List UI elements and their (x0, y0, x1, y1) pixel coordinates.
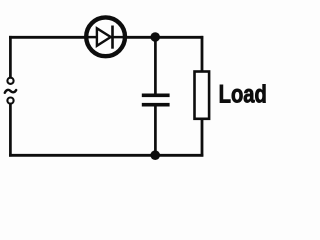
svg-text:Load: Load (219, 79, 267, 108)
node junction bottom (150, 150, 160, 160)
wire left upper vertical (9, 36, 12, 78)
AC source terminal lower (7, 98, 13, 104)
AC source terminal upper (7, 78, 13, 84)
node junction top (150, 32, 160, 42)
diode D1 internal wire (86, 36, 125, 39)
wire right lower vertical (201, 119, 204, 157)
capacitor C bottom plate (142, 103, 170, 107)
wire middle vertical below capacitor (154, 105, 157, 156)
load resistor rectangle (195, 72, 210, 119)
AC source tilde (5, 90, 16, 93)
diode D1 circle (86, 17, 125, 56)
wire right upper vertical (201, 36, 204, 72)
diode D1 triangle (97, 28, 111, 46)
wire top horizontal (9, 36, 203, 39)
capacitor C top plate (142, 94, 170, 98)
diode D1 cathode bar (111, 26, 114, 49)
wire bottom horizontal (9, 154, 203, 157)
wire left lower vertical (9, 104, 12, 157)
wire middle vertical above capacitor (154, 37, 157, 94)
